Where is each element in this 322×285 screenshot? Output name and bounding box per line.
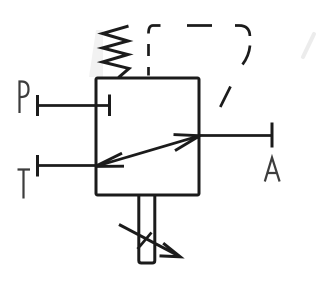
adjustment arrowhead — [160, 243, 181, 257]
A port line — [198, 134, 272, 137]
P port line — [38, 104, 110, 107]
port P label — [20, 82, 29, 114]
P line start tick — [36, 95, 39, 116]
port A label — [265, 158, 280, 182]
scan smudge left of spring — [89, 30, 103, 77]
valve body (envelope) — [96, 78, 199, 195]
scan smudge top right — [303, 34, 314, 57]
P line end tick (closed port) — [108, 95, 111, 117]
flow path arrow A-T (double-headed) shaft — [96, 136, 200, 167]
pilot line dash 2 — [147, 44, 150, 56]
stem cross line — [138, 233, 152, 250]
pilot line dash 3 (upper-left corner) — [149, 26, 161, 34]
spring — [103, 26, 130, 78]
drain stem — [139, 196, 155, 263]
pilot line dash 4 — [187, 24, 212, 27]
pilot line (dashed) dash 1 — [147, 67, 150, 76]
T line start tick — [36, 155, 39, 177]
pilot line dash 7 — [243, 46, 251, 65]
flow arrowhead left (at T) — [95, 153, 124, 166]
A line end tick — [271, 123, 274, 148]
port T label — [18, 170, 31, 199]
pilot line dash 8 — [220, 87, 230, 108]
flow arrowhead right (at A) — [174, 135, 200, 151]
pilot line dash 6 (upper-right corner) — [235, 26, 250, 37]
T port line — [38, 164, 97, 167]
adjustment arrow shaft — [119, 225, 180, 257]
